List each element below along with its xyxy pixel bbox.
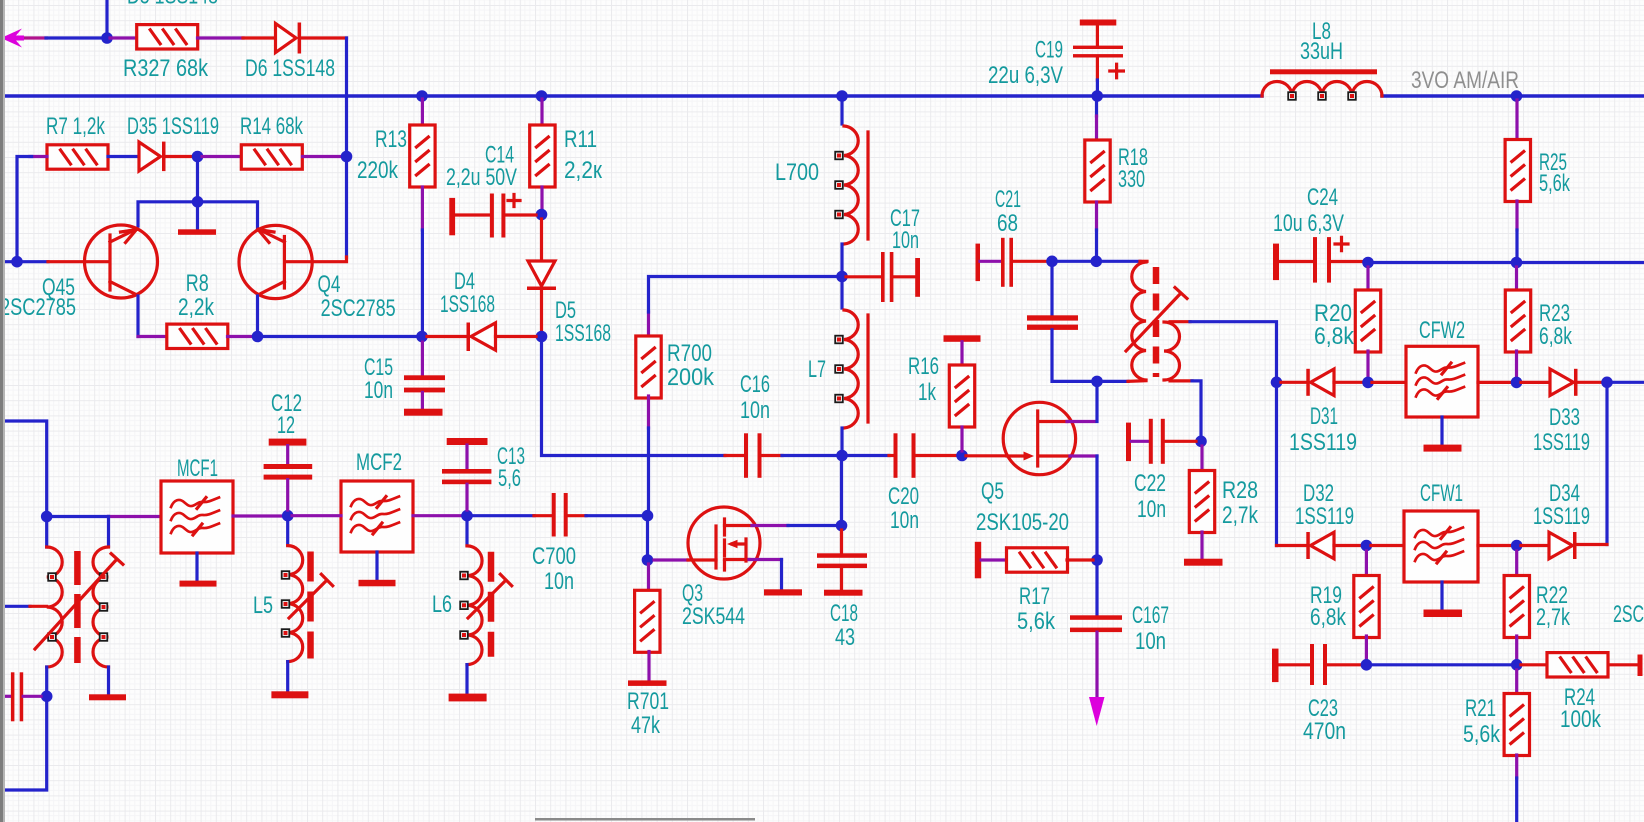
L5 tuning arrow (289, 574, 333, 618)
resistor R21 (1504, 694, 1529, 756)
svg-text:R16: R16 (908, 353, 939, 380)
svg-text:R327 68k: R327 68k (123, 55, 209, 82)
node: C23/R19 junction (1361, 659, 1373, 671)
filter MCF1 (161, 481, 233, 553)
svg-text:200k: 200k (667, 364, 715, 391)
svg-text:33uH: 33uH (1300, 38, 1343, 65)
transformer T1 secondary winding (93, 547, 109, 667)
wire: R25 down to C24 rail (1515, 201, 1518, 230)
wire: D4 to D5 node (496, 335, 537, 338)
svg-text:L7: L7 (808, 356, 826, 383)
node: D31/R20/CFW2 junction (1362, 377, 1374, 389)
wire: CFW2 bottom to ground (1440, 417, 1443, 445)
transformer T1 primary winding (47, 547, 63, 667)
wire: R700 bottom through rail to taps (647, 396, 650, 428)
svg-text:6,8k: 6,8k (1314, 323, 1355, 350)
wire: node to CFW1 (1371, 544, 1404, 547)
capacitor C19 22u 6,3V (1073, 20, 1123, 93)
wire: Q3 drain to C18 node (752, 524, 788, 527)
svg-text:6,8k: 6,8k (1310, 604, 1347, 631)
svg-text:1SS119: 1SS119 (1289, 429, 1357, 456)
capacitor C14 2,2u 50V (449, 194, 536, 238)
wire: T2 vertical down to D32 (1275, 387, 1278, 546)
transistor Q3 2SK544 (654, 507, 760, 579)
wire: C16 to L7 node (762, 454, 783, 457)
svg-text:C20: C20 (888, 483, 919, 510)
transformer T1 tuning arrow (35, 554, 123, 649)
svg-text:1SS168: 1SS168 (440, 291, 495, 318)
ground bar (L5) (271, 691, 308, 698)
wire: Q5 drain up to transformer node (1067, 420, 1094, 423)
wire: bar to R16 (960, 342, 963, 367)
node: R18/C21 rail junction (1091, 255, 1103, 267)
L6 tuning arrow (468, 574, 512, 618)
svg-text:D6 1SS148: D6 1SS148 (245, 55, 335, 82)
wire: D35 to node (166, 155, 194, 158)
wire: bus to R18 (1095, 100, 1098, 116)
svg-text:3VO AM/AIR: 3VO AM/AIR (1411, 67, 1519, 94)
node: D33 output junction (1601, 377, 1613, 389)
node: R8/Q4 junction (252, 331, 264, 343)
inductor L700 (835, 99, 868, 272)
wire: T2 secondary bottom to C22 node (1170, 379, 1192, 382)
diode D31 1SS119 (1306, 369, 1334, 396)
input arrow (magenta) (1, 29, 24, 48)
svg-text:330: 330 (1118, 166, 1145, 193)
diode D5 1SS168 (527, 261, 556, 290)
svg-text:L6: L6 (432, 591, 452, 618)
node: T2 vertical / D31 junction (1271, 377, 1283, 389)
wire: D32 to CFW1 node (1334, 544, 1361, 547)
svg-text:Q4: Q4 (318, 271, 341, 298)
wire: magenta input arrow line to junction (20, 36, 48, 39)
wire: vertical feed at top to R327 node (105, 0, 108, 33)
resistor R14 (241, 145, 302, 169)
transformer T2 core (1153, 267, 1160, 377)
wire: T1 primary bottom to cap junction (45, 667, 48, 691)
inductor L8 33uH (1262, 69, 1382, 99)
wire: C24 rail (1372, 261, 1512, 264)
resistor R18 (1085, 140, 1110, 202)
filter CFW2 (1406, 346, 1478, 417)
svg-text:CFW2: CFW2 (1419, 317, 1465, 344)
node: R25/R23 rail junction (1511, 257, 1523, 269)
wire: bus to R13 (421, 99, 424, 125)
svg-text:1SS119: 1SS119 (1533, 503, 1590, 530)
transformer T2 secondary winding (1164, 322, 1180, 380)
wire: junction to MCF1 (51, 515, 109, 518)
capacitor C13 5,6 (442, 438, 491, 510)
svg-text:10n: 10n (740, 397, 770, 424)
svg-text:1SS168: 1SS168 (555, 320, 611, 347)
wire: junction down and out left (0, 701, 47, 790)
svg-text:43: 43 (835, 624, 855, 651)
transistor Q4 2SC2785 (239, 225, 312, 298)
wire: R24 to right edge (1610, 663, 1638, 666)
node: Q5 source / R17 / C167 junction (1091, 554, 1103, 566)
capacitor C17 10n (846, 252, 920, 302)
ground bar (MCF1) (180, 581, 217, 587)
svg-text:2,7k: 2,7k (1536, 604, 1571, 631)
wire: node to D5 (540, 219, 543, 261)
node: R13/C15/D4 junction (416, 331, 428, 343)
svg-text:C24: C24 (1307, 184, 1338, 211)
svg-text:5,6k: 5,6k (1463, 721, 1501, 748)
window chrome: bottom gray line (535, 818, 755, 821)
wire: R19 top (1365, 551, 1368, 577)
wire: rail to right edge (1521, 261, 1644, 264)
ground bar (Q3 source) (764, 589, 802, 595)
node: T1 primary top junction (41, 511, 53, 523)
diode D4 1SS168 (467, 323, 496, 352)
capacitor C700 10n (552, 493, 586, 537)
node: R16/C20 rail junction (956, 450, 968, 462)
svg-text:10u 6,3V: 10u 6,3V (1273, 210, 1344, 237)
diode D32 1SS119 (1306, 532, 1334, 559)
capacitor C15 10n (404, 342, 445, 416)
svg-text:R13: R13 (375, 126, 407, 153)
wire: D31 to R20 node (1334, 381, 1363, 384)
wire: Q3 source to ground (749, 558, 782, 561)
resistor R700 (636, 336, 661, 398)
capacitor C22 10n (1126, 419, 1196, 464)
wire: rail red at C16 (725, 454, 744, 457)
svg-text:Q5: Q5 (981, 478, 1004, 505)
wire: bar to R17 (981, 558, 1007, 561)
wire: R14 to vertical net (303, 155, 342, 158)
wire: node to R28 (1200, 446, 1203, 471)
inductor L7 (835, 281, 868, 451)
wire: C700 to R700 tap (586, 514, 643, 517)
capacitor C167 10n (1070, 564, 1122, 700)
node: D35/R14 junction (192, 151, 204, 163)
wire: Q5 source down (1070, 454, 1097, 457)
wire: rail to R20 (1366, 267, 1369, 291)
node: C24/R20 junction (1362, 257, 1374, 269)
wire: R22 top (1515, 551, 1518, 577)
svg-text:D35 1SS119: D35 1SS119 (127, 113, 219, 140)
svg-text:D5 1SS148: D5 1SS148 (127, 0, 218, 10)
wire: MCF2 in (292, 514, 341, 517)
svg-text:R7 1,2k: R7 1,2k (46, 113, 106, 140)
transistor Q5 2SK105-20 (1003, 402, 1075, 474)
ground bar (T1 secondary) (89, 694, 126, 700)
svg-text:2SK544: 2SK544 (682, 603, 745, 630)
svg-text:C18: C18 (830, 600, 858, 627)
capacitor (left edge, unlabeled) (0, 672, 41, 721)
wire: R23 to D33 row (1515, 351, 1518, 377)
wire: MCF2 out to C13 node (413, 514, 462, 517)
wire: C13 node to C700 (472, 514, 534, 517)
L6 core (488, 552, 495, 657)
filter MCF2 (341, 481, 413, 552)
filter CFW1 (1404, 511, 1478, 582)
svg-text:47k: 47k (631, 712, 661, 739)
resistor R16 (949, 365, 974, 427)
svg-text:2,2u 50V: 2,2u 50V (446, 164, 517, 191)
node: C13/L6 junction (461, 510, 473, 522)
node: C12/L5 junction (282, 510, 294, 522)
wire: drain node to T2 primary bottom (1101, 380, 1128, 383)
wire: node to R14 (202, 155, 241, 158)
wire: 3V0 power bus (0, 94, 1644, 98)
wire: tap to R701 (647, 564, 650, 592)
wire: node to D33 (1521, 381, 1550, 384)
svg-text:2,2k: 2,2k (178, 294, 215, 321)
wire: R8 row to R13 node (262, 335, 417, 338)
ground bar (bias) (178, 229, 216, 235)
svg-text:2SC2785: 2SC2785 (0, 294, 76, 321)
svg-text:R11: R11 (564, 126, 597, 153)
wire: R11 to C14 node (540, 187, 543, 209)
svg-text:470n: 470n (1303, 718, 1346, 745)
node: D32/R19/CFW1 junction (1361, 540, 1373, 552)
svg-text:R21: R21 (1465, 695, 1496, 722)
node: bus/R11 junction (536, 90, 548, 102)
wire: rail node down to C18 (840, 460, 843, 521)
wire: stub to ground bar (196, 202, 199, 229)
wire: D5 to R8 row node (540, 290, 543, 332)
wire: rail to R23 (1515, 267, 1518, 291)
wire: R8 to junction (228, 335, 254, 338)
wire: R700 top corner to L7 node (647, 312, 650, 338)
resistor R17 left bar (975, 542, 981, 579)
wire: R327 to D6 (198, 36, 244, 39)
wire: Q4 collector down to R8 node (256, 296, 259, 331)
svg-text:2SC2: 2SC2 (1613, 601, 1644, 628)
svg-text:5,6k: 5,6k (1539, 170, 1571, 197)
wire: R13 down to R8 row (421, 187, 424, 230)
node: junction R327 input (101, 32, 113, 44)
resistor R7 (47, 145, 108, 169)
node: R700/R701/C700 tap junction (642, 510, 654, 522)
wire: T2 secondary top to right vertical (1170, 320, 1190, 323)
capacitor C21 68 (976, 238, 1048, 287)
node: Q5 drain / T2 primary junction (1091, 376, 1103, 388)
node: R11/C14/D5 junction (536, 209, 548, 221)
node: D5/D4/C700 junction (536, 331, 548, 343)
svg-text:L700: L700 (775, 159, 819, 186)
node: bias tee junction (192, 196, 204, 208)
wire: left edge to T1 top junction (0, 421, 47, 547)
ground bar (C18) (824, 590, 863, 596)
wire: R16 to rail (960, 427, 963, 451)
svg-text:12: 12 (277, 412, 295, 439)
svg-text:6,8k: 6,8k (1539, 323, 1573, 350)
node: T2 sec / C22 / R28 junction (1195, 436, 1207, 448)
resistor R23 (1505, 290, 1530, 352)
resistor R11 (530, 125, 555, 187)
resistor R327 (137, 25, 198, 49)
ground bar (CFW1) (1424, 610, 1463, 618)
wire: Q45 collector down to R8 (136, 296, 139, 337)
resistor R16 top bar (944, 335, 981, 342)
inductor L5 (282, 521, 303, 692)
inductor L6 (460, 521, 482, 694)
svg-text:R8: R8 (186, 270, 209, 297)
svg-text:5,6k: 5,6k (1017, 608, 1056, 635)
diode D35 1SS119 (139, 142, 166, 172)
capacitor C24 10u 6,3V (1273, 237, 1363, 283)
wire: C21 node to R18 node (1056, 260, 1092, 263)
svg-text:10n: 10n (890, 507, 919, 534)
svg-text:10n: 10n (892, 227, 919, 254)
resistor R22 (1504, 576, 1529, 638)
node: C21 junction (1046, 255, 1058, 267)
svg-text:MCF2: MCF2 (356, 449, 402, 476)
resistor R28 (1189, 471, 1214, 533)
component stub at right edge (1638, 655, 1643, 677)
svg-text:C22: C22 (1134, 470, 1166, 497)
svg-text:C19: C19 (1035, 37, 1063, 64)
transistor Q45 2SC2785 (48, 225, 158, 298)
wire: R22 bottom (1515, 636, 1518, 660)
svg-text:R14 68k: R14 68k (240, 113, 304, 140)
ground bar (R701) (628, 680, 667, 686)
svg-text:5,6: 5,6 (498, 465, 521, 492)
node: T1 bottom / edge cap junction (41, 691, 53, 703)
wire: node to D34 (1521, 544, 1549, 547)
svg-text:C21: C21 (995, 186, 1021, 213)
svg-text:2,2к: 2,2к (564, 157, 602, 184)
svg-text:2,7k: 2,7k (1222, 502, 1259, 529)
capacitor C16 10n (744, 433, 762, 478)
svg-text:R28: R28 (1222, 477, 1258, 504)
wire: R21 to bottom edge (1515, 755, 1518, 778)
wire: R21 top (1515, 670, 1518, 694)
svg-text:22u 6,3V: 22u 6,3V (988, 62, 1063, 89)
capacitor C12 12 (264, 439, 313, 510)
svg-text:L5: L5 (253, 592, 273, 619)
node: bus/C19/R18 junction (1091, 90, 1103, 102)
wire: T1 secondary bottom to ground (107, 667, 110, 694)
node: R22/R21/R24 junction (1511, 659, 1523, 671)
resistor R20 (1355, 290, 1380, 352)
svg-text:220k: 220k (357, 157, 399, 184)
svg-text:1k: 1k (918, 379, 937, 406)
node: Q45 base junction (11, 256, 23, 268)
ground bar (L6) (449, 694, 487, 702)
svg-text:C167: C167 (1132, 602, 1169, 629)
node: bus/R13 junction (416, 90, 428, 102)
wire: left edge to Q45 base (0, 260, 48, 263)
wire: D6 to corner, down to Q4 base net (301, 36, 347, 39)
capacitor C23 470n (1272, 644, 1361, 685)
wire: MCF1 out to C12 node (233, 514, 283, 517)
node: R14/D6 vertical junction (341, 151, 353, 163)
transformer T1 core (74, 551, 81, 663)
wire: R701 to ground (647, 652, 650, 682)
wire: R13 node to D4 (427, 335, 466, 338)
svg-text:1SS119: 1SS119 (1533, 429, 1590, 456)
svg-text:MCF1: MCF1 (177, 455, 218, 482)
wire: CFW1 bottom to ground (1440, 582, 1443, 610)
wire: CFW1 to D34 node (1478, 544, 1512, 547)
ground bar (R28) (1184, 559, 1223, 566)
transformer T2 primary winding (1132, 262, 1146, 380)
node: Q3 drain / C18 junction (836, 520, 848, 532)
capacitor C18 43 (817, 530, 867, 590)
diode D34 1SS119 (1549, 532, 1577, 559)
svg-text:C16: C16 (740, 371, 770, 398)
wire: MCF1 bottom to ground (195, 553, 198, 581)
resistor R17 (1007, 548, 1068, 572)
svg-text:10n: 10n (544, 568, 574, 595)
svg-text:68: 68 (997, 210, 1018, 237)
resistor R19 (1354, 576, 1379, 638)
wire: R18 down to C21 rail (1095, 202, 1098, 230)
wire: CFW2 to R23 node (1478, 381, 1512, 384)
svg-text:100k: 100k (1560, 706, 1602, 733)
wire: node to R24 (1521, 663, 1545, 666)
L5 core (307, 552, 314, 659)
wire: R28 to ground (1200, 532, 1203, 559)
output arrow down (magenta) (1089, 697, 1105, 726)
resistor R24 (1547, 653, 1608, 677)
resistor R25 (1505, 140, 1530, 202)
svg-text:10n: 10n (1137, 496, 1166, 523)
wire: center bias node down (196, 160, 199, 202)
wire: D33 to right node (1578, 381, 1603, 384)
wire: rail to Q5 gate (966, 454, 1006, 457)
wire: node down to D34 (1605, 387, 1608, 545)
wire: node to CFW2 (1372, 381, 1406, 384)
wire: node to right edge (1612, 381, 1644, 384)
transformer T2 tuning arrow (1126, 288, 1187, 352)
window chrome: left gray strip (0, 0, 3, 822)
wire: bus to R11 (540, 99, 543, 125)
wire: T1 primary center tap (0, 605, 30, 608)
svg-text:D31: D31 (1310, 403, 1338, 430)
node: L700/L7/C17 junction (836, 271, 848, 283)
svg-text:C700: C700 (532, 543, 576, 570)
ground bar (CFW2) (1424, 445, 1462, 452)
svg-text:R700: R700 (667, 340, 712, 367)
node: Q3 gate tap junction (642, 554, 654, 566)
wire: R18 node to T2 primary top (1101, 260, 1140, 263)
wire: bias rail to Q45 and Q4 tops (138, 202, 258, 228)
resistor R8 (167, 324, 228, 348)
node: L7/C20 rail junction (836, 450, 848, 462)
wire: D5 node down to low rail corner (542, 342, 726, 456)
svg-text:2SK105-20: 2SK105-20 (976, 509, 1069, 536)
svg-text:10n: 10n (364, 377, 393, 404)
svg-text:D33: D33 (1549, 404, 1580, 431)
resistor R701 (635, 590, 660, 652)
wire: MCF2 bottom to ground (375, 552, 378, 580)
svg-text:R701: R701 (627, 688, 669, 715)
diode D6 1SS148 (276, 23, 302, 54)
capacitor (tank, unlabeled) on C21 leg (1027, 265, 1092, 381)
capacitor C20 10n (889, 433, 957, 478)
node: bus/R25 junction (1511, 90, 1523, 102)
svg-text:2SC2785: 2SC2785 (321, 295, 396, 322)
svg-text:CFW1: CFW1 (1420, 480, 1463, 507)
wire: R20 to D31 row (1366, 351, 1369, 377)
svg-text:10n: 10n (1135, 628, 1166, 655)
svg-text:R17: R17 (1019, 583, 1050, 610)
node: CFW2/R23/D33 junction (1511, 377, 1523, 389)
svg-text:1SS119: 1SS119 (1295, 503, 1354, 530)
wire: junction to R327 (110, 36, 137, 39)
diode D33 1SS119 (1550, 369, 1578, 396)
resistor R13 (410, 125, 435, 187)
wire: bus to R25 (1515, 100, 1518, 140)
node: CFW1/R22/D34 junction (1511, 540, 1523, 552)
wire: bottom rail (1371, 663, 1512, 666)
ground bar (MCF2) (359, 580, 396, 587)
wire: T1 secondary top drop (107, 517, 110, 547)
